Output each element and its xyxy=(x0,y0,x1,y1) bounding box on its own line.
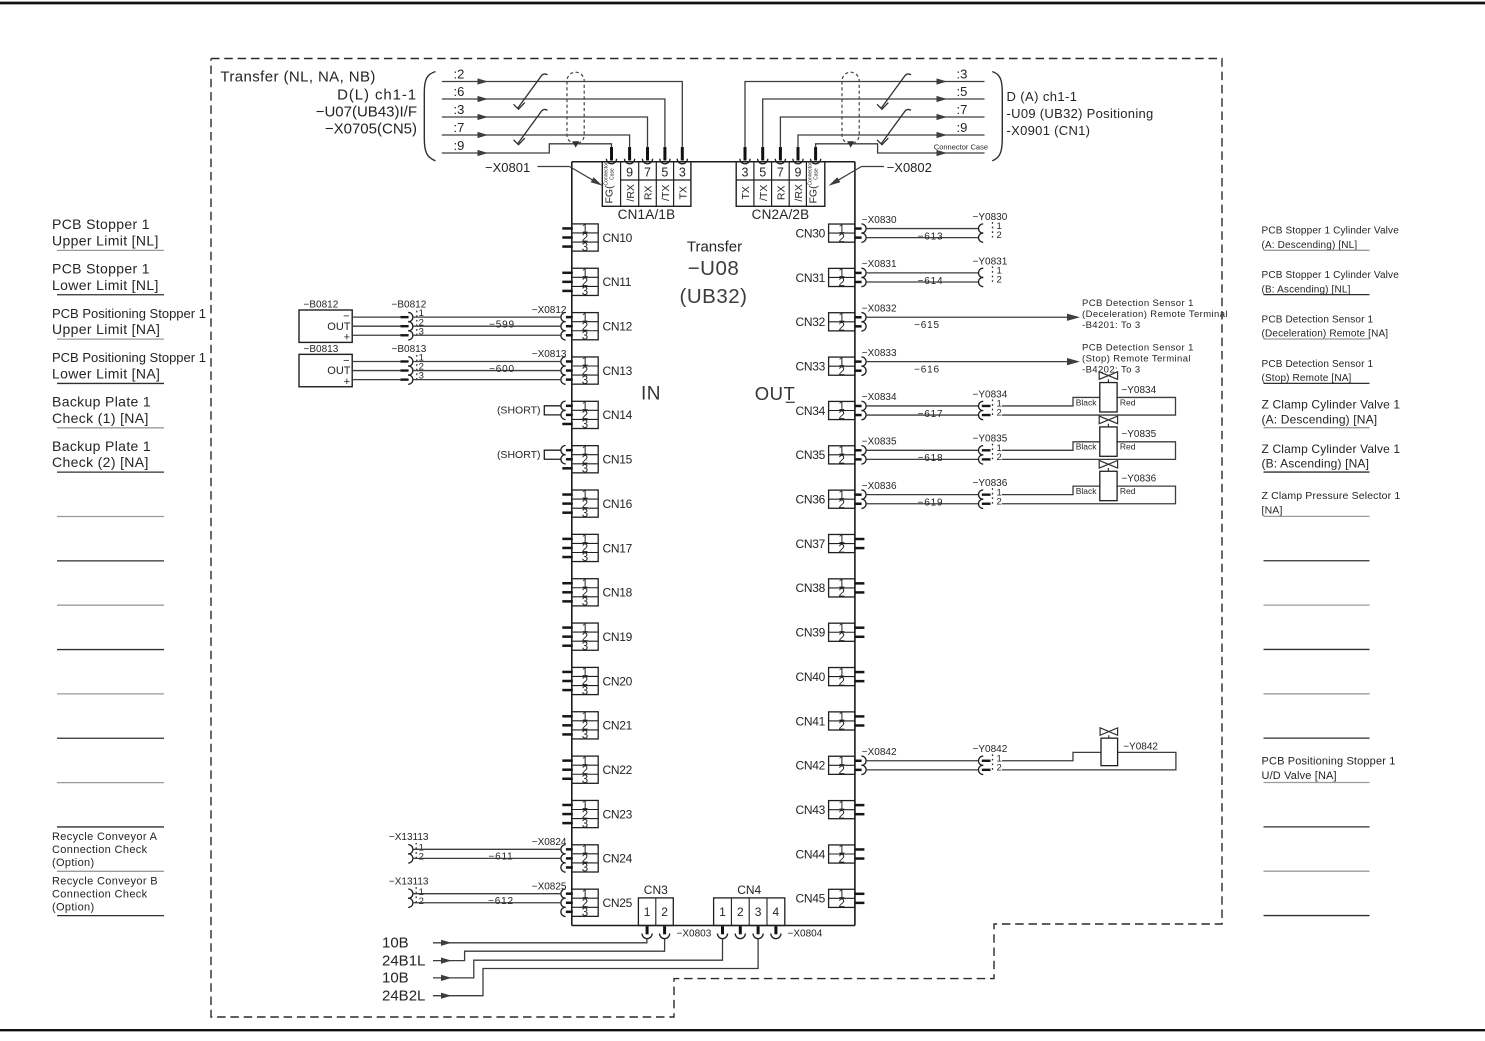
svg-text:3: 3 xyxy=(582,907,588,919)
svg-text:−B0812: −B0812 xyxy=(304,300,339,311)
twisted pair symbol left 1 xyxy=(514,74,548,109)
cable joint -B0812 xyxy=(401,308,424,340)
svg-text:−B0812: −B0812 xyxy=(392,300,427,311)
svg-text:CN36: CN36 xyxy=(796,493,826,507)
svg-text:CN20: CN20 xyxy=(603,674,633,688)
signal label Recycle Conveyor A xyxy=(52,831,164,871)
svg-text:CN16: CN16 xyxy=(603,497,633,511)
connector CN24 xyxy=(561,845,633,875)
svg-text:3: 3 xyxy=(582,330,588,342)
svg-text:Backup Plate 1: Backup Plate 1 xyxy=(52,394,151,410)
svg-text:Red: Red xyxy=(1120,486,1136,496)
svg-text:(UB32): (UB32) xyxy=(680,285,748,308)
signal label Backup Plate 1 Check (2) [NA] xyxy=(52,438,164,472)
svg-text:PCB Detection Sensor 1: PCB Detection Sensor 1 xyxy=(1262,314,1374,325)
output line 12 (blank) xyxy=(1264,737,1370,739)
svg-text:CN33: CN33 xyxy=(796,359,826,373)
svg-text:CN10: CN10 xyxy=(603,231,633,245)
signal label PCB Positioning Stopper 1 Lower Limit [NA] xyxy=(52,350,206,383)
svg-text:CN44: CN44 xyxy=(796,847,826,861)
svg-text:CN31: CN31 xyxy=(796,271,826,285)
signal line 7 (blank) xyxy=(57,516,164,518)
output label PCB Positioning Stopper 1 U/D Valve [NA] xyxy=(1262,756,1396,783)
label -X0801 with leader xyxy=(485,160,603,186)
cable −612 wires to −X0825 xyxy=(412,881,567,907)
cable shield symbol right xyxy=(842,72,859,147)
svg-text:PCB Stopper 1 Cylinder Valve: PCB Stopper 1 Cylinder Valve xyxy=(1262,270,1400,281)
connector CN11 xyxy=(562,268,631,298)
svg-text:−U08: −U08 xyxy=(688,257,740,280)
connector CN4 xyxy=(714,883,785,926)
svg-text:−X0803: −X0803 xyxy=(677,929,712,940)
connector CN36 xyxy=(796,490,867,511)
svg-text:1: 1 xyxy=(644,905,651,919)
svg-text:/TX: /TX xyxy=(660,185,672,201)
svg-text:(Stop) Remote Terminal: (Stop) Remote Terminal xyxy=(1082,353,1191,364)
svg-text:(B: Ascending) [NL]: (B: Ascending) [NL] xyxy=(1262,284,1351,295)
svg-text:−B0813: −B0813 xyxy=(304,344,339,355)
svg-text:CN34: CN34 xyxy=(796,404,826,418)
svg-text:(A: Descending) [NA]: (A: Descending) [NA] xyxy=(1262,412,1378,426)
connector CN39 xyxy=(796,623,865,644)
svg-text:PCB Stopper 1: PCB Stopper 1 xyxy=(52,260,150,276)
svg-text:−X0801: −X0801 xyxy=(485,160,530,175)
svg-text:2: 2 xyxy=(419,896,424,907)
output line 8 (blank) xyxy=(1264,560,1370,562)
svg-text:CN35: CN35 xyxy=(796,448,826,462)
svg-text:Connection Check: Connection Check xyxy=(52,888,148,900)
svg-text:Lower Limit [NA]: Lower Limit [NA] xyxy=(52,365,160,381)
connector CN38 xyxy=(796,579,865,600)
wire :2 to CN1A xyxy=(442,66,683,147)
svg-text::7: :7 xyxy=(957,102,968,117)
svg-text:2: 2 xyxy=(838,455,844,467)
solenoid valve -Y0836 xyxy=(1002,460,1176,503)
connector CN12 xyxy=(561,312,633,342)
svg-text:−Y0834: −Y0834 xyxy=(1121,385,1156,396)
svg-text:3: 3 xyxy=(582,863,588,875)
svg-text:D (A) ch1-1: D (A) ch1-1 xyxy=(1007,89,1078,104)
svg-text:−Y0835: −Y0835 xyxy=(973,434,1008,445)
svg-text:−X0813: −X0813 xyxy=(532,349,567,360)
svg-text:−X0831: −X0831 xyxy=(862,259,897,270)
svg-text:−X0832: −X0832 xyxy=(862,303,897,314)
svg-text:3: 3 xyxy=(582,508,588,520)
svg-text::9: :9 xyxy=(957,120,968,135)
svg-text:CN4: CN4 xyxy=(737,883,761,897)
cable −618 wires to -Y0835 xyxy=(862,437,979,465)
svg-text:Transfer: Transfer xyxy=(687,239,742,256)
svg-text:9: 9 xyxy=(795,165,802,179)
page top border xyxy=(0,2,1485,5)
power wire 24B2L xyxy=(382,939,758,1005)
svg-text:/RX: /RX xyxy=(793,184,805,202)
svg-text:Check (2) [NA]: Check (2) [NA] xyxy=(52,454,149,470)
cable wires to -Y0842 xyxy=(862,747,979,770)
jumper (SHORT) on CN15 xyxy=(497,449,561,461)
svg-text:−X0842: −X0842 xyxy=(862,747,897,758)
svg-text:24B1L: 24B1L xyxy=(382,952,425,969)
svg-text:9: 9 xyxy=(626,165,633,179)
svg-text:−615: −615 xyxy=(914,320,940,331)
svg-text:Connector Case: Connector Case xyxy=(934,143,988,152)
svg-text:2: 2 xyxy=(838,543,844,555)
svg-text:CN12: CN12 xyxy=(603,320,633,334)
svg-text:Upper Limit [NA]: Upper Limit [NA] xyxy=(52,321,160,337)
svg-text:PCB Positioning Stopper 1: PCB Positioning Stopper 1 xyxy=(1262,756,1396,768)
svg-text:CN37: CN37 xyxy=(796,537,826,551)
signal line 13 (blank) xyxy=(57,782,164,784)
svg-text:−X0825: −X0825 xyxy=(532,881,567,892)
connector CN45 xyxy=(796,889,865,910)
cable end -X13113 for CN24 xyxy=(389,832,429,843)
signal line 10 (blank) xyxy=(57,649,164,651)
svg-text:−619: −619 xyxy=(918,498,944,509)
connector CN30 xyxy=(796,224,867,245)
power wire 10B xyxy=(382,935,647,952)
connector CN16 xyxy=(562,490,632,520)
svg-text:PCB Detection Sensor 1: PCB Detection Sensor 1 xyxy=(1082,342,1194,353)
svg-text:7: 7 xyxy=(644,165,651,179)
svg-text:Case: Case xyxy=(610,168,616,180)
svg-text::7: :7 xyxy=(454,120,465,135)
connector CN18 xyxy=(562,578,632,608)
svg-text:2: 2 xyxy=(838,765,844,777)
svg-text:CN30: CN30 xyxy=(796,226,826,240)
svg-text:−618: −618 xyxy=(918,453,944,464)
connector CN13 xyxy=(561,357,633,387)
cable −599 wires to -X0812 xyxy=(412,305,567,335)
svg-text:3: 3 xyxy=(582,730,588,742)
svg-text:Black: Black xyxy=(1076,397,1098,407)
svg-text:-B4201: To 3: -B4201: To 3 xyxy=(1082,320,1141,331)
svg-text:3: 3 xyxy=(582,286,588,298)
signal label PCB Stopper 1 Upper Limit [NL] xyxy=(52,216,164,250)
svg-text:−X0824: −X0824 xyxy=(532,837,567,848)
svg-text:−X0804: −X0804 xyxy=(788,929,823,940)
wire Connector Case from CN2A FG xyxy=(816,143,988,157)
wire :7 to CN1A xyxy=(442,120,630,148)
svg-text:−Y0831: −Y0831 xyxy=(973,256,1008,267)
svg-text:2: 2 xyxy=(997,230,1002,241)
note PCB Detection Sensor 1 (Stop) Remote Terminal xyxy=(1082,342,1194,375)
signal line 11 (blank) xyxy=(57,693,164,695)
svg-text:2: 2 xyxy=(838,632,844,644)
svg-text:Case: Case xyxy=(814,168,820,180)
connector CN35 xyxy=(796,446,867,467)
svg-text:[NA]: [NA] xyxy=(1262,505,1283,517)
connector CN23 xyxy=(562,800,632,830)
svg-text:3: 3 xyxy=(679,165,686,179)
harness labels D(L) ch1-1 -U07(UB43)I/F -X0705(CN5) xyxy=(316,87,417,138)
output label Z Clamp Cylinder Valve 1 (B: Ascending) [NA] xyxy=(1262,442,1401,472)
svg-text:CN11: CN11 xyxy=(603,275,632,289)
svg-text:−612: −612 xyxy=(488,896,514,907)
output line 9 (blank) xyxy=(1264,604,1370,606)
svg-text:Black: Black xyxy=(1076,442,1098,452)
output label PCB Stopper 1 Cylinder Valve (B: Ascending) [NL] xyxy=(1262,270,1400,295)
twisted pair symbol right 1 xyxy=(877,74,911,109)
svg-text:2: 2 xyxy=(838,410,844,422)
svg-text:CN32: CN32 xyxy=(796,315,826,329)
svg-text:CN14: CN14 xyxy=(603,408,633,422)
svg-text:2: 2 xyxy=(997,496,1002,507)
svg-text:3: 3 xyxy=(582,419,588,431)
svg-text:CN42: CN42 xyxy=(796,759,826,773)
valve connector -Y0836 xyxy=(973,478,1008,508)
svg-text:−X13113: −X13113 xyxy=(389,832,429,843)
svg-text:2: 2 xyxy=(838,809,844,821)
svg-text:Z Clamp Cylinder Valve 1: Z Clamp Cylinder Valve 1 xyxy=(1262,398,1401,412)
connector CN22 xyxy=(562,756,632,786)
output line 15 (blank) xyxy=(1264,870,1370,872)
svg-text:PCB Positioning Stopper 1: PCB Positioning Stopper 1 xyxy=(52,306,206,321)
jumper (SHORT) on CN14 xyxy=(497,405,561,417)
svg-text:OUT: OUT xyxy=(755,383,796,404)
svg-text:CN1A/1B: CN1A/1B xyxy=(618,207,676,222)
svg-text:−X0833: −X0833 xyxy=(862,348,897,359)
CN1A pin sockets xyxy=(606,147,687,164)
svg-text:(SHORT): (SHORT) xyxy=(497,449,541,461)
svg-text:7: 7 xyxy=(777,165,784,179)
svg-text:1: 1 xyxy=(719,905,726,919)
cable −600 wires to -X0813 xyxy=(412,349,567,379)
cable shield symbol left xyxy=(567,72,584,147)
svg-text:−X13113: −X13113 xyxy=(389,876,429,887)
svg-text:−599: −599 xyxy=(489,319,515,330)
svg-text:2: 2 xyxy=(661,905,668,919)
svg-text:3: 3 xyxy=(755,905,762,919)
wire :9 shield to CN1A FG xyxy=(442,138,612,156)
connector CN34 xyxy=(796,401,867,422)
svg-text:IN: IN xyxy=(641,384,661,405)
svg-text:PCB Positioning Stopper 1: PCB Positioning Stopper 1 xyxy=(52,350,206,365)
svg-text:PCB Stopper 1 Cylinder Valve: PCB Stopper 1 Cylinder Valve xyxy=(1262,226,1400,237)
wire :3 from CN2A xyxy=(745,66,985,147)
svg-text::9: :9 xyxy=(454,138,465,153)
connector CN15 xyxy=(561,445,633,475)
cable −611 wires to −X0824 xyxy=(412,837,567,863)
svg-text:Backup Plate 1: Backup Plate 1 xyxy=(52,438,151,454)
connector CN25 xyxy=(561,889,633,919)
svg-text:CN19: CN19 xyxy=(603,630,633,644)
svg-text:CN13: CN13 xyxy=(603,364,633,378)
svg-text:U/D Valve [NA]: U/D Valve [NA] xyxy=(1262,770,1337,782)
connector CN37 xyxy=(796,534,865,555)
svg-text:2: 2 xyxy=(419,852,424,863)
harness bracket right xyxy=(992,72,1002,161)
svg-text:CN18: CN18 xyxy=(603,586,633,600)
svg-text:FG(: FG( xyxy=(808,185,820,204)
svg-text:CN39: CN39 xyxy=(796,626,826,640)
svg-text:−Y0836: −Y0836 xyxy=(973,478,1008,489)
svg-text:−617: −617 xyxy=(918,409,944,420)
svg-text:(Option): (Option) xyxy=(52,901,95,913)
svg-text:CN24: CN24 xyxy=(603,852,633,866)
sensor -B0812 xyxy=(299,300,352,344)
svg-text:3: 3 xyxy=(582,242,588,254)
svg-text:−U07(UB43)I/F: −U07(UB43)I/F xyxy=(316,104,417,121)
svg-text:/TX: /TX xyxy=(758,185,770,201)
page bottom border xyxy=(0,1029,1485,1031)
svg-text:2: 2 xyxy=(838,588,844,600)
svg-text:PCB Detection Sensor 1: PCB Detection Sensor 1 xyxy=(1262,359,1374,370)
harness labels D (A) ch1-1 -U09 (UB32) Positioning -X0901 (CN1) xyxy=(1007,89,1154,138)
signal line 8 (blank) xyxy=(57,560,164,562)
note PCB Detection Sensor 1 (Deceleration) Remote Terminal xyxy=(1082,298,1228,331)
dashed system boundary Transfer (NL, NA, NB) xyxy=(211,59,1222,1018)
svg-text:5: 5 xyxy=(661,165,668,179)
svg-text:2: 2 xyxy=(737,905,744,919)
output label PCB Stopper 1 Cylinder Valve (A: Descending) [NL] xyxy=(1262,226,1400,251)
label OUT xyxy=(755,383,796,404)
svg-text:3: 3 xyxy=(582,818,588,830)
valve connector -Y0835 xyxy=(973,434,1008,464)
twisted pair symbol left 2 xyxy=(514,109,548,144)
svg-text:2: 2 xyxy=(838,854,844,866)
power wire 24B1L xyxy=(382,939,665,970)
svg-text:CN38: CN38 xyxy=(796,581,826,595)
svg-text:PCB Stopper 1: PCB Stopper 1 xyxy=(52,216,150,232)
connector CN33 xyxy=(796,357,867,378)
svg-text:RX: RX xyxy=(776,186,788,201)
connector CN19 xyxy=(562,623,632,653)
valve connector -Y0842 xyxy=(973,744,1008,774)
cable end -X13113 for CN25 xyxy=(389,876,429,887)
svg-text:(B: Ascending) [NA]: (B: Ascending) [NA] xyxy=(1262,457,1370,471)
svg-text:CN40: CN40 xyxy=(796,670,826,684)
svg-text:3: 3 xyxy=(582,774,588,786)
cable −613 wires to -Y0830 xyxy=(862,215,979,243)
svg-text:PCB Detection Sensor 1: PCB Detection Sensor 1 xyxy=(1082,298,1194,309)
svg-text:2: 2 xyxy=(838,233,844,245)
svg-text:Recycle Conveyor B: Recycle Conveyor B xyxy=(52,875,158,887)
label IN xyxy=(641,384,661,405)
solenoid valve -Y0835 xyxy=(1002,416,1176,459)
connector CN40 xyxy=(796,667,865,688)
svg-text:3: 3 xyxy=(742,165,749,179)
svg-text:−X0802: −X0802 xyxy=(887,160,932,175)
svg-text:−B0813: −B0813 xyxy=(392,344,427,355)
svg-text:Z Clamp Pressure Selector 1: Z Clamp Pressure Selector 1 xyxy=(1262,490,1401,502)
PCB unit -U08 (UB32) block outline xyxy=(572,162,855,926)
connector CN17 xyxy=(562,534,632,564)
svg-text:2: 2 xyxy=(838,676,844,688)
svg-text:Z Clamp Cylinder Valve 1: Z Clamp Cylinder Valve 1 xyxy=(1262,442,1401,456)
svg-text:CN15: CN15 xyxy=(603,453,633,467)
connector CN43 xyxy=(796,800,865,821)
svg-text:D(L) ch1-1: D(L) ch1-1 xyxy=(337,87,417,104)
svg-text:3: 3 xyxy=(582,552,588,564)
cable −619 wires to -Y0836 xyxy=(862,481,979,509)
svg-text:−Y0830: −Y0830 xyxy=(973,212,1008,223)
svg-text:-X0901 (CN1): -X0901 (CN1) xyxy=(1007,123,1091,138)
svg-text:−X0836: −X0836 xyxy=(862,481,897,492)
connector CN21 xyxy=(562,711,632,741)
svg-text:−616: −616 xyxy=(914,364,940,375)
signal line 9 (blank) xyxy=(57,604,164,606)
svg-text:−X0835: −X0835 xyxy=(862,437,897,448)
svg-text:Red: Red xyxy=(1120,397,1136,407)
valve connector -Y0830 xyxy=(973,212,1008,242)
block title Transfer -U08 (UB32) xyxy=(680,239,748,309)
cable −614 wires to -Y0831 xyxy=(862,259,979,287)
connector CN20 xyxy=(562,667,632,697)
svg-text:Recycle Conveyor A: Recycle Conveyor A xyxy=(52,831,158,843)
wires -B0813 to joint xyxy=(352,361,400,379)
cable joint -B0813 xyxy=(401,353,424,385)
valve connector -Y0831 xyxy=(973,256,1008,286)
svg-text:−Y0836: −Y0836 xyxy=(1121,473,1156,484)
output label PCB Detection Sensor 1 (Deceleration) Remote [NA] xyxy=(1262,314,1389,339)
svg-text:-U09 (UB32) Positioning: -U09 (UB32) Positioning xyxy=(1007,106,1154,121)
svg-text:−Y0842: −Y0842 xyxy=(973,744,1008,755)
svg-text:2: 2 xyxy=(997,275,1002,286)
svg-text:2: 2 xyxy=(838,721,844,733)
cable −616 wire to remote terminal xyxy=(862,348,1080,376)
connector CN14 xyxy=(561,401,633,431)
svg-text::3: :3 xyxy=(454,102,465,117)
svg-text:10B: 10B xyxy=(382,935,409,952)
svg-text:3: 3 xyxy=(582,375,588,387)
wire :5 from CN2A xyxy=(763,84,985,148)
svg-text:−X0705(CN5): −X0705(CN5) xyxy=(325,121,417,138)
connector CN42 xyxy=(796,756,867,777)
svg-text:(Deceleration) Remote Terminal: (Deceleration) Remote Terminal xyxy=(1082,309,1228,320)
valve connector -Y0834 xyxy=(973,389,1008,419)
svg-text:2: 2 xyxy=(997,408,1002,419)
svg-text:CN41: CN41 xyxy=(796,714,826,728)
svg-text:FG(: FG( xyxy=(604,185,616,204)
output line 10 (blank) xyxy=(1264,648,1370,650)
svg-text:+: + xyxy=(344,376,350,388)
connector CN44 xyxy=(796,845,865,866)
signal label PCB Stopper 1 Lower Limit [NL] xyxy=(52,260,164,294)
output line 11 (blank) xyxy=(1264,693,1370,695)
signal label Backup Plate 1 Check (1) [NA] xyxy=(52,394,164,428)
svg-text:2: 2 xyxy=(838,322,844,334)
cable −615 wire to remote terminal xyxy=(862,303,1080,331)
svg-text:3: 3 xyxy=(582,685,588,697)
svg-text:/RX: /RX xyxy=(625,184,637,202)
wires -B0812 to joint xyxy=(352,317,400,335)
output label Z Clamp Cylinder Valve 1 (A: Descending) [NA] xyxy=(1262,398,1401,428)
svg-text:2: 2 xyxy=(838,277,844,289)
svg-text:(Option): (Option) xyxy=(52,857,95,869)
connector CN1A/1B xyxy=(602,162,691,222)
boundary title Transfer (NL, NA, NB) xyxy=(220,69,375,86)
svg-text:−Y0842: −Y0842 xyxy=(1123,742,1158,753)
connector CN32 xyxy=(796,312,867,333)
svg-text:Transfer (NL, NA, NB): Transfer (NL, NA, NB) xyxy=(220,69,375,86)
label -X0802 with leader xyxy=(829,160,932,186)
svg-text:−613: −613 xyxy=(918,231,944,242)
svg-text:−Y0834: −Y0834 xyxy=(973,389,1008,400)
svg-text:−600: −600 xyxy=(489,364,515,375)
sensor -B0813 xyxy=(299,344,352,388)
connector CN2A/2B xyxy=(736,162,825,222)
svg-text:Lower Limit [NL]: Lower Limit [NL] xyxy=(52,277,159,293)
svg-text:10B: 10B xyxy=(382,970,409,987)
CN2A pin sockets xyxy=(740,147,821,164)
svg-text:CN43: CN43 xyxy=(796,803,826,817)
svg-text:−X0812: −X0812 xyxy=(532,305,567,316)
svg-text:5: 5 xyxy=(759,165,766,179)
twisted pair symbol right 2 xyxy=(877,109,911,144)
wire :3 to CN1A xyxy=(442,102,648,148)
wire :7 from CN2A xyxy=(780,102,984,148)
svg-text:(SHORT): (SHORT) xyxy=(497,405,541,417)
